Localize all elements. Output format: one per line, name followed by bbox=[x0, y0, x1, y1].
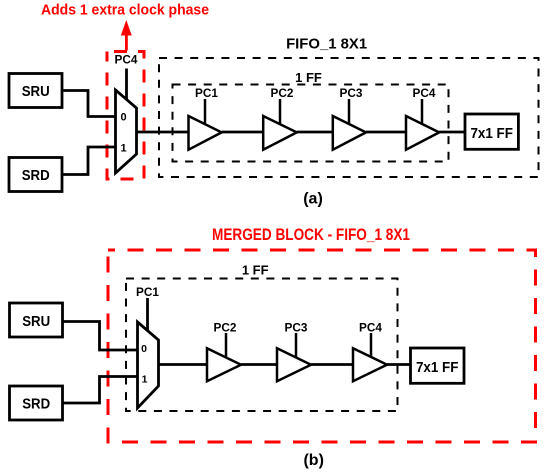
svg-text:PC4: PC4 bbox=[359, 321, 382, 335]
red dashed region box around mux (a) bbox=[107, 52, 144, 180]
buffer B6 with clock PC3 (b) bbox=[277, 321, 311, 382]
svg-text:0: 0 bbox=[120, 111, 126, 123]
red dashed merged block box (b) bbox=[108, 250, 536, 442]
svg-text:PC1: PC1 bbox=[195, 86, 218, 100]
outer dashed box FIFO_1 8X1 (a) bbox=[159, 58, 539, 177]
box SRU (b) bbox=[10, 303, 63, 337]
buffer B3 with clock PC3 (a) bbox=[333, 86, 366, 150]
svg-text:1 FF: 1 FF bbox=[295, 70, 322, 85]
wire SRU to mux input 0 (a) bbox=[62, 91, 116, 117]
wire B5 to B6 (b) bbox=[241, 363, 277, 366]
mux U1 (a) bbox=[116, 90, 137, 173]
wire B6 to B7 (b) bbox=[311, 363, 353, 366]
buffer B4 with clock PC4 (a) bbox=[406, 86, 439, 150]
wire B7 to output box (b) bbox=[387, 363, 411, 366]
clock wire PC4 to mux (a) bbox=[125, 69, 128, 103]
wire B1 to B2 (a) bbox=[222, 131, 264, 134]
svg-text:PC3: PC3 bbox=[340, 86, 363, 100]
wire SRD to mux input 1 (b) bbox=[63, 377, 138, 404]
svg-text:PC2: PC2 bbox=[271, 86, 294, 100]
svg-text:PC4: PC4 bbox=[115, 53, 138, 67]
svg-text:PC3: PC3 bbox=[285, 321, 308, 335]
svg-text:Adds 1 extra clock phase: Adds 1 extra clock phase bbox=[41, 1, 209, 18]
wire mux output to buffer PC1 (a) bbox=[137, 131, 189, 134]
buffer B5 with clock PC2 (b) bbox=[207, 321, 241, 382]
svg-text:PC2: PC2 bbox=[214, 321, 237, 335]
svg-text:MERGED BLOCK - FIFO_1 8X1: MERGED BLOCK - FIFO_1 8X1 bbox=[212, 225, 410, 244]
svg-text:(a): (a) bbox=[303, 190, 323, 207]
svg-text:7x1 FF: 7x1 FF bbox=[470, 126, 513, 142]
wire B2 to B3 (a) bbox=[297, 131, 333, 134]
red arrow (extra clock phase pointer) bbox=[121, 20, 132, 51]
wire B3 to B4 (a) bbox=[366, 131, 406, 134]
box 7x1 FF (b) bbox=[411, 348, 465, 383]
wire B4 to output box (a) bbox=[439, 131, 465, 134]
svg-text:SRD: SRD bbox=[22, 397, 50, 413]
svg-text:1: 1 bbox=[120, 143, 126, 155]
inner dashed box 1 FF (b) bbox=[126, 279, 398, 412]
svg-text:PC4: PC4 bbox=[413, 86, 436, 100]
mux U2 (b) bbox=[138, 322, 159, 408]
box SRU (a) bbox=[9, 74, 62, 108]
svg-text:(b): (b) bbox=[303, 452, 323, 469]
buffer B7 with clock PC4 (b) bbox=[353, 321, 387, 382]
svg-text:SRU: SRU bbox=[22, 84, 50, 100]
svg-text:1: 1 bbox=[142, 373, 148, 385]
box SRD (a) bbox=[9, 158, 62, 192]
svg-text:1 FF: 1 FF bbox=[242, 263, 269, 278]
wire mux output to buffer PC2 (b) bbox=[159, 363, 208, 366]
svg-text:7x1 FF: 7x1 FF bbox=[416, 360, 459, 376]
clock wire PC1 to mux (b) bbox=[146, 298, 149, 333]
inner dashed box 1 FF (a) bbox=[173, 85, 449, 162]
svg-text:SRU: SRU bbox=[22, 314, 50, 330]
svg-text:0: 0 bbox=[141, 343, 147, 355]
buffer B1 with clock PC1 (a) bbox=[189, 86, 222, 150]
buffer B2 with clock PC2 (a) bbox=[263, 86, 297, 150]
wire SRD to mux input 1 (a) bbox=[62, 147, 116, 175]
svg-text:PC1: PC1 bbox=[136, 285, 159, 299]
svg-text:SRD: SRD bbox=[22, 168, 50, 184]
wire SRU to mux input 0 (b) bbox=[63, 322, 138, 351]
svg-text:FIFO_1 8X1: FIFO_1 8X1 bbox=[286, 35, 367, 52]
box 7x1 FF (a) bbox=[465, 114, 518, 149]
box SRD (b) bbox=[10, 386, 63, 420]
